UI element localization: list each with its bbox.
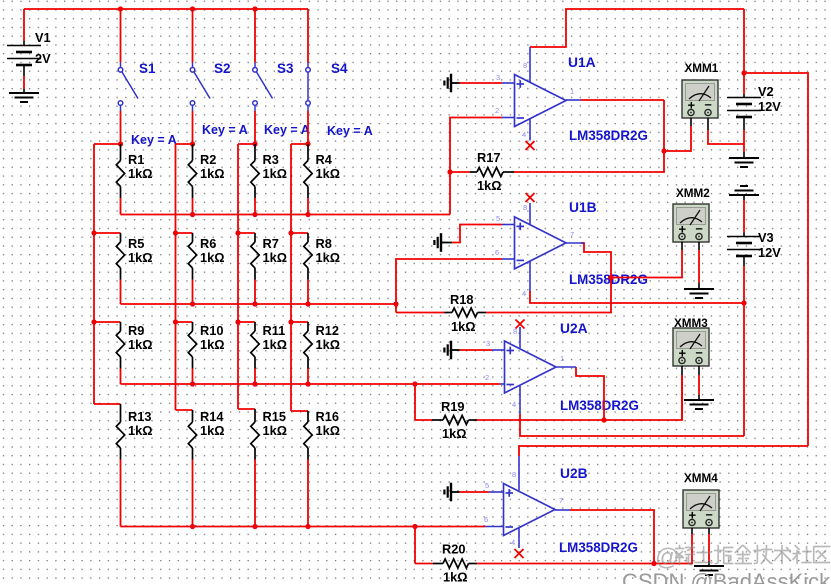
svg-text:8: 8 — [523, 203, 527, 212]
resistor R20 1k — [415, 527, 477, 584]
svg-text:3: 3 — [496, 73, 500, 82]
wire XMM4 negative terminal to ground — [708, 528, 710, 566]
wire switch S3 to row1 node — [254, 111, 256, 144]
node V2 positive junction — [741, 70, 746, 75]
svg-text:1kΩ: 1kΩ — [442, 426, 467, 441]
svg-text:Key = A: Key = A — [264, 123, 310, 137]
wire bus row1 (R1-R4 bottoms) — [121, 214, 451, 216]
node bus1 junction — [190, 212, 195, 217]
svg-text:3: 3 — [486, 339, 490, 348]
unconnected marker U2A pin 8 — [516, 320, 525, 329]
resistor R10 1k — [188, 322, 224, 369]
resistor R12 1k — [304, 322, 340, 369]
svg-text:XMM3: XMM3 — [674, 317, 708, 330]
svg-text:R14: R14 — [200, 409, 224, 424]
node link col1 row2 tap — [91, 230, 96, 235]
ground below XMM4 — [694, 566, 724, 575]
svg-text:1kΩ: 1kΩ — [200, 166, 225, 181]
svg-text:1kΩ: 1kΩ — [128, 337, 153, 352]
svg-text:XMM2: XMM2 — [676, 187, 710, 200]
wire bus row4 (R13-R16 bottoms) to U2B inverting input — [121, 526, 486, 528]
node bus2 / R18 junction — [393, 301, 398, 306]
svg-text:R2: R2 — [200, 152, 216, 167]
svg-text:U1B: U1B — [569, 200, 597, 215]
wire row2 stub col3 — [238, 232, 255, 234]
svg-text:R3: R3 — [263, 152, 279, 167]
resistor R3 1k — [251, 144, 287, 198]
svg-text:1kΩ: 1kΩ — [316, 250, 341, 265]
svg-text:V1: V1 — [35, 30, 51, 45]
wire row3 stub col2 — [176, 321, 193, 323]
pin 7 stub U1B output — [566, 242, 584, 244]
svg-text:Key = A: Key = A — [202, 123, 248, 137]
wire row1 stub to link column 2 — [176, 143, 193, 145]
wire switch S4 to row1 node — [307, 111, 309, 144]
svg-text:1kΩ: 1kΩ — [200, 337, 225, 352]
svg-text:U2A: U2A — [560, 321, 588, 336]
node link col3 row2 tap — [235, 230, 240, 235]
node link col2 row3 tap — [173, 319, 178, 324]
wire XMM3 negative terminal to ground — [698, 366, 700, 400]
pin 8 stub U2B — [518, 456, 520, 490]
wire R6 bottom to bus — [192, 280, 194, 305]
svg-text:R8: R8 — [316, 236, 332, 251]
svg-text:2: 2 — [485, 373, 489, 382]
wire bus row2 (R5-R8 bottoms) — [121, 303, 397, 305]
ground below V2 — [729, 158, 759, 167]
svg-text:S2: S2 — [214, 61, 231, 76]
wire U2A output down — [576, 367, 604, 420]
svg-text:R16: R16 — [316, 409, 339, 424]
svg-text:R4: R4 — [316, 152, 333, 167]
svg-text:R9: R9 — [128, 323, 144, 338]
svg-text:1kΩ: 1kΩ — [200, 250, 225, 265]
wire row2 stub col4 — [291, 232, 308, 234]
ground at U2A non-inverting input — [444, 341, 459, 360]
wire XMM4 positive terminal to U2B output — [654, 528, 692, 564]
svg-text:8: 8 — [523, 61, 527, 70]
multimeter XMM1 — [682, 80, 718, 118]
op-amp U1A — [515, 75, 567, 127]
node bus3 junction — [252, 381, 257, 386]
wire U1A inverting input feedback riser — [450, 118, 502, 215]
pin 8 stub U2A — [519, 327, 521, 348]
pin 8 power stub U1A — [529, 47, 531, 82]
node link col1 row3 tap — [91, 319, 96, 324]
ground below V1 — [9, 93, 39, 102]
resistor R6 1k — [188, 233, 224, 280]
wire V3 negative to VEE rail — [743, 266, 745, 436]
wire R17 to U1A output node — [514, 100, 664, 172]
wire R13 bottom to bus — [120, 460, 122, 527]
svg-text:1kΩ: 1kΩ — [451, 319, 476, 334]
voltage source V1 2V — [7, 9, 51, 93]
resistor R8 1k — [304, 233, 340, 280]
wire row3 stub col4 — [291, 321, 308, 323]
svg-text:LM358DR2G: LM358DR2G — [560, 398, 639, 413]
pin 1 stub U1A output — [566, 99, 581, 101]
resistor R7 1k — [251, 233, 287, 280]
node row1 junction col 1 — [118, 141, 123, 146]
resistor R1 1k — [116, 144, 152, 198]
wire top bus from V1 to switches — [24, 8, 308, 10]
wire row4 stub col3 — [238, 408, 255, 410]
wire R7 bottom to bus — [254, 280, 256, 305]
node bus3 junction — [305, 381, 310, 386]
node bus2 junction — [305, 301, 310, 306]
pin 8 stub U1B — [529, 203, 531, 224]
resistor R15 1k — [251, 409, 287, 460]
svg-text:R13: R13 — [128, 409, 151, 424]
wire switch S2 to row1 node — [192, 111, 194, 144]
resistor R9 1k — [116, 322, 152, 369]
resistor R4 1k — [304, 144, 340, 198]
node bus3 / R19 junction — [412, 381, 417, 386]
wire XMM2 positive terminal to U1B output — [611, 242, 682, 278]
svg-text:R19: R19 — [441, 399, 464, 414]
pin 5 stub U1B — [502, 224, 515, 226]
svg-text:R1: R1 — [128, 152, 144, 167]
svg-text:R15: R15 — [263, 409, 286, 424]
svg-text:4: 4 — [522, 289, 526, 298]
unconnected marker U2B pin 4 — [515, 549, 524, 558]
wire row3 stub col3 — [238, 321, 255, 323]
wire riser top bus to switch S1 — [120, 9, 122, 63]
svg-text:6: 6 — [484, 515, 488, 524]
pin 3 stub U1A — [502, 82, 515, 84]
wire riser top bus to switch S4 — [307, 9, 309, 63]
wire U1A VCC to V2 positive rail — [530, 9, 744, 47]
node R19 / U2A output junction — [601, 417, 606, 422]
svg-text:R11: R11 — [263, 323, 286, 338]
wire R20 to U2B output / XMM4 junction — [477, 563, 654, 565]
svg-text:7: 7 — [559, 496, 563, 505]
wire R11 bottom to bus — [254, 369, 256, 385]
svg-text:U1A: U1A — [568, 55, 596, 70]
multimeter XMM2 — [673, 204, 709, 242]
wire U1A output to XMM1 junction — [581, 99, 664, 101]
node row1 junction col 2 — [190, 141, 195, 146]
svg-text:Key = A: Key = A — [327, 124, 373, 138]
svg-text:1kΩ: 1kΩ — [316, 166, 341, 181]
ground at U2B non-inverting input — [444, 483, 459, 502]
svg-text:2: 2 — [495, 106, 499, 115]
wire riser top bus to switch S2 — [192, 9, 194, 63]
wire switch S1 to row1 node — [120, 111, 122, 144]
wire row2 stub col1 — [94, 232, 121, 234]
pin 4 stub U1A — [529, 118, 531, 141]
wire R12 bottom to bus — [307, 369, 309, 385]
wire row1 stub to link column 1 — [94, 143, 121, 145]
svg-text:1kΩ: 1kΩ — [443, 570, 468, 584]
node bus4 junction — [252, 524, 257, 529]
svg-text:1kΩ: 1kΩ — [128, 250, 153, 265]
resistor R13 1k — [116, 404, 152, 460]
inverted ground above V3 — [729, 186, 759, 195]
svg-text:1kΩ: 1kΩ — [316, 337, 341, 352]
wire row3 stub col1 — [94, 321, 121, 323]
pin 1 stub U2A output — [556, 366, 576, 368]
watermark line 1 @juejin community — [655, 544, 830, 571]
svg-text:Key = A: Key = A — [131, 133, 177, 147]
pin 4 stub U2B — [518, 528, 520, 548]
resistor R16 1k — [304, 409, 340, 460]
svg-text:1: 1 — [570, 87, 574, 96]
svg-text:R20: R20 — [442, 542, 465, 557]
wire R1 bottom to bus — [120, 198, 122, 215]
svg-text:4: 4 — [512, 400, 516, 409]
wire ground to U2B pin 5 — [460, 491, 490, 493]
wire row4 stub col1 — [94, 403, 121, 405]
node bus4 junction — [305, 524, 310, 529]
svg-text:1kΩ: 1kΩ — [316, 423, 341, 438]
svg-text:U2B: U2B — [560, 466, 588, 481]
svg-text:CSDN @BadAssKicker: CSDN @BadAssKicker — [622, 569, 831, 584]
svg-text:4: 4 — [522, 130, 526, 139]
node link col3 row3 tap — [235, 319, 240, 324]
wire U1B VEE to V3 negative rail — [530, 291, 744, 303]
wire riser top bus to switch S3 — [254, 9, 256, 63]
wire column link vertical 4 — [290, 144, 292, 411]
node link col4 row2 tap — [288, 230, 293, 235]
switch S2 — [190, 61, 248, 137]
resistor R2 1k — [188, 144, 224, 198]
unconnected marker U1A pin 4 — [526, 141, 535, 150]
svg-text:R5: R5 — [128, 236, 144, 251]
wire R19 to U2A output and XMM3 — [477, 375, 682, 420]
switch S3 — [253, 61, 310, 137]
svg-text:1kΩ: 1kΩ — [128, 423, 153, 438]
node bus4 junction — [190, 524, 195, 529]
wire R18 to U1B output — [486, 243, 611, 313]
pin 6 stub U2B — [485, 526, 504, 528]
svg-text:4: 4 — [511, 538, 515, 547]
svg-text:1kΩ: 1kΩ — [477, 178, 502, 193]
switch S4 — [306, 61, 373, 138]
wire column link vertical 2 — [175, 144, 177, 410]
wire R14 bottom to bus — [192, 460, 194, 527]
node row1 junction col 3 — [252, 141, 257, 146]
pin 4 stub U2A — [519, 386, 521, 414]
node U2B output / R20 / XMM4 junction — [651, 561, 656, 566]
svg-text:LM358DR2G: LM358DR2G — [569, 128, 648, 143]
svg-text:12V: 12V — [758, 245, 781, 260]
wire R8 bottom to bus — [307, 280, 309, 305]
pin 7 stub U2B output — [555, 509, 570, 511]
multimeter XMM4 — [683, 490, 719, 528]
ground below XMM2 — [684, 289, 714, 298]
wire V2 top junction — [743, 9, 745, 73]
wire column link vertical 3 — [237, 144, 239, 409]
node U1A output / XMM1 junction — [661, 148, 666, 153]
node V3 negative / U1B VEE junction — [741, 300, 746, 305]
resistor R14 1k — [188, 409, 224, 460]
svg-text:8: 8 — [512, 470, 516, 479]
pin 5 stub U2B — [489, 491, 504, 493]
svg-text:XMM1: XMM1 — [685, 62, 719, 75]
node bus1 junction — [305, 212, 310, 217]
wire R4 bottom to bus — [307, 198, 309, 215]
svg-text:1kΩ: 1kΩ — [263, 423, 288, 438]
svg-text:LM358DR2G: LM358DR2G — [569, 272, 648, 287]
wire XMM2 negative terminal to ground — [698, 242, 700, 289]
svg-text:S4: S4 — [331, 61, 348, 76]
voltage source V3 12V — [727, 195, 781, 266]
switch S1 — [118, 61, 177, 147]
wire bus row3 (R9-R12 bottoms) to U2A inverting input — [121, 383, 501, 385]
pin 2 stub U1A — [502, 117, 515, 119]
wire U1B inverting input to bus2 junction — [396, 259, 502, 304]
wire column link vertical 1 — [93, 144, 95, 404]
ground below XMM3 — [684, 400, 714, 409]
ground at U1B non-inverting input — [434, 233, 452, 252]
wire row1 stub to link column 4 — [291, 143, 308, 145]
pin 4 stub U1B — [529, 261, 531, 291]
node R17 feedback junction — [447, 169, 452, 174]
op-amp U2A — [505, 341, 557, 393]
wire XMM1 positive terminal to U1A output — [664, 118, 691, 151]
svg-text:5: 5 — [485, 481, 489, 490]
svg-text:LM358DR2G: LM358DR2G — [559, 540, 638, 555]
svg-text:12V: 12V — [758, 99, 781, 114]
svg-text:R7: R7 — [263, 236, 279, 251]
wire ground to U1B pin 5 — [452, 225, 502, 243]
node bus3 junction — [190, 381, 195, 386]
node bus2 junction — [190, 301, 195, 306]
wire R5 bottom to bus — [120, 280, 122, 305]
resistor R18 1k — [396, 292, 486, 334]
pin 2 stub U2A — [500, 383, 505, 385]
svg-text:R6: R6 — [200, 236, 216, 251]
wire R10 bottom to bus — [192, 369, 194, 385]
wire R15 bottom to bus — [254, 460, 256, 527]
svg-text:V3: V3 — [758, 230, 774, 245]
wire row4 stub col2 — [176, 409, 193, 411]
svg-text:1kΩ: 1kΩ — [263, 337, 288, 352]
node junction S1 tap — [118, 6, 123, 11]
wire R3 bottom to bus — [254, 198, 256, 215]
voltage source V2 12V — [727, 73, 781, 158]
op-amp U2B — [504, 484, 556, 536]
resistor R11 1k — [251, 322, 287, 369]
svg-text:S1: S1 — [139, 61, 156, 76]
svg-text:R17: R17 — [477, 150, 500, 165]
svg-text:1kΩ: 1kΩ — [128, 166, 153, 181]
node bus2 junction — [252, 301, 257, 306]
node bus1 junction — [252, 212, 257, 217]
wire ground to U2A pin 3 — [460, 349, 493, 351]
wire R16 bottom to bus — [307, 460, 309, 527]
node junction S3 tap — [252, 6, 257, 11]
wire U2A VEE to V3 negative rail — [520, 414, 744, 436]
unconnected marker U1B pin 8 — [526, 193, 535, 202]
svg-text:7: 7 — [570, 230, 574, 239]
node row1 junction col 4 — [305, 141, 310, 146]
svg-text:S3: S3 — [277, 61, 294, 76]
svg-text:R18: R18 — [450, 292, 473, 307]
wire R9 bottom to bus — [120, 369, 122, 385]
svg-text:R10: R10 — [200, 323, 223, 338]
node U1B output / XMM2 junction — [608, 275, 613, 280]
wire XMM3 positive terminal to U2A output — [681, 366, 683, 420]
pin 3 stub U2A — [492, 349, 505, 351]
multimeter XMM3 — [673, 328, 709, 366]
op-amp U1B — [515, 217, 567, 269]
svg-text:1kΩ: 1kΩ — [263, 250, 288, 265]
node link col4 row3 tap — [288, 319, 293, 324]
svg-text:XMM4: XMM4 — [684, 472, 718, 485]
resistor R5 1k — [116, 233, 152, 280]
resistor R17 1k — [450, 150, 514, 193]
svg-text:2V: 2V — [35, 51, 51, 66]
wire ground to U1A pin 3 — [460, 82, 503, 84]
svg-text:1kΩ: 1kΩ — [263, 166, 288, 181]
node bus4 / R20 junction — [412, 524, 417, 529]
pin 6 stub U1B — [502, 258, 515, 260]
svg-text:1kΩ: 1kΩ — [200, 423, 225, 438]
svg-text:1: 1 — [560, 354, 564, 363]
ground at U1A non-inverting input — [444, 74, 459, 93]
svg-text:R12: R12 — [316, 323, 339, 338]
svg-text:V2: V2 — [758, 84, 774, 99]
wire U2B VCC to V2 positive rail — [519, 446, 808, 456]
wire row1 stub to link column 3 — [238, 143, 255, 145]
wire row4 stub col4 — [291, 410, 308, 412]
svg-text:5: 5 — [496, 214, 500, 223]
wire U2B output down — [570, 510, 654, 564]
svg-text:6: 6 — [495, 248, 499, 257]
wire row2 stub col2 — [176, 232, 193, 234]
node junction S2 tap — [190, 6, 195, 11]
node link col2 row2 tap — [173, 230, 178, 235]
resistor R19 1k — [415, 384, 477, 441]
wire XMM1 negative terminal to V2 negative — [708, 118, 744, 144]
wire V2 junction to right rail — [744, 73, 808, 446]
wire R2 bottom to bus — [192, 198, 194, 215]
